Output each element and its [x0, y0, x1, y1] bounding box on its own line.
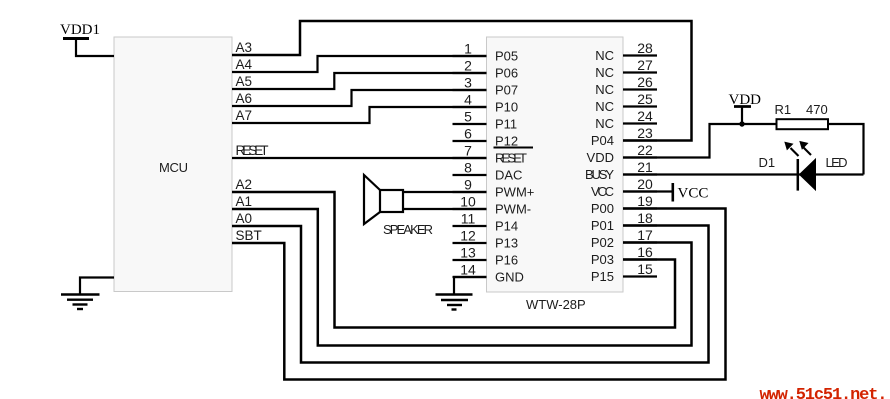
svg-text:NC: NC [595, 99, 614, 114]
svg-text:NC: NC [595, 82, 614, 97]
svg-text:P14: P14 [495, 219, 518, 234]
wire A2 to P03 (pin 16) [232, 192, 675, 328]
svg-text:A4: A4 [236, 57, 253, 72]
pin 1 P05 [453, 41, 519, 64]
pin 17 P02 [591, 227, 657, 250]
svg-text:A0: A0 [236, 211, 253, 226]
svg-text:6: 6 [464, 126, 472, 142]
pin 27 NC [595, 57, 657, 80]
pin 10 PWM- [453, 194, 532, 217]
wire A7 to P10 (pin 4) [232, 107, 487, 123]
wire VDD (pin 22) up to resistor rail [623, 124, 777, 158]
svg-text:23: 23 [637, 125, 653, 141]
pin 2 P06 [453, 58, 519, 81]
pin 22 VDD [587, 142, 657, 165]
pin 18 P01 [591, 210, 657, 233]
svg-text:P12: P12 [495, 134, 518, 149]
svg-text:BUSY: BUSY [585, 167, 614, 182]
power VDD1 [60, 22, 100, 57]
svg-text:14: 14 [460, 262, 476, 278]
svg-text:17: 17 [637, 227, 653, 243]
svg-text:P07: P07 [495, 83, 518, 98]
pin 16 P03 [591, 244, 657, 267]
svg-text:A3: A3 [236, 40, 253, 55]
ground GND2 [436, 295, 473, 310]
svg-text:A2: A2 [236, 177, 253, 192]
svg-text:A6: A6 [236, 91, 253, 106]
svg-text:NC: NC [595, 48, 614, 63]
pin 6 P12 [453, 126, 519, 149]
wire A4 to P05 (pin 1) [232, 56, 487, 72]
junction dot VDD rail [739, 121, 744, 126]
svg-text:7: 7 [464, 143, 472, 159]
svg-text:19: 19 [637, 193, 653, 209]
svg-text:12: 12 [460, 228, 476, 244]
svg-text:SBT: SBT [236, 228, 262, 243]
speaker LS1 [364, 175, 403, 224]
svg-text:P11: P11 [495, 117, 517, 132]
power VDD [729, 92, 762, 124]
wire A6 to P07 (pin 3) [232, 90, 487, 106]
svg-text:15: 15 [637, 261, 653, 277]
wire GND (pin 14) to ground [454, 277, 487, 295]
pin 13 P16 [453, 245, 519, 268]
pin 26 NC [595, 74, 657, 97]
pin 25 NC [595, 91, 657, 114]
svg-text:NC: NC [595, 116, 614, 131]
resistor R1 [777, 119, 829, 129]
wire SBT to P00 (pin 19) [232, 209, 726, 380]
svg-text:16: 16 [637, 244, 653, 260]
svg-text:P03: P03 [591, 252, 614, 267]
LED emission arrows [784, 141, 811, 156]
pin 24 NC [595, 108, 657, 131]
pin 3 P07 [453, 75, 519, 98]
wire RESET to pin 7 [232, 157, 487, 159]
svg-text:9: 9 [464, 177, 472, 193]
wire PWM+ (pin 9) to speaker [403, 191, 487, 193]
wire A1 to P02 (pin 17) [232, 209, 692, 346]
svg-text:LED: LED [826, 155, 848, 170]
pin 7 RESET [453, 143, 534, 166]
svg-text:VDD: VDD [587, 150, 614, 165]
svg-text:27: 27 [637, 57, 653, 73]
svg-text:P04: P04 [591, 133, 614, 148]
svg-text:P06: P06 [495, 66, 518, 81]
svg-text:10: 10 [460, 194, 476, 210]
svg-text:3: 3 [464, 75, 472, 91]
pin 15 P15 [591, 261, 657, 284]
svg-text:21: 21 [637, 159, 653, 175]
wire MCU to ground [80, 278, 114, 295]
svg-text:P13: P13 [495, 236, 518, 251]
svg-text:P00: P00 [591, 201, 614, 216]
IC U2 WTW-28P body [487, 37, 624, 292]
pin 9 PWM+ [453, 177, 535, 200]
svg-text:www.51c51.net.: www.51c51.net. [760, 386, 888, 399]
pin 28 NC [595, 40, 657, 63]
svg-text:PWM-: PWM- [495, 202, 531, 217]
svg-text:NC: NC [595, 65, 614, 80]
pin 5 P11 [453, 109, 518, 132]
svg-text:A7: A7 [236, 108, 253, 123]
wire VDD1 to MCU [75, 55, 114, 57]
svg-text:P01: P01 [591, 218, 614, 233]
svg-text:24: 24 [637, 108, 653, 124]
svg-text:8: 8 [464, 160, 472, 176]
wire A3 to P04 (pin 23) via top rail [232, 21, 692, 141]
svg-text:SPEAKER: SPEAKER [383, 222, 433, 237]
svg-text:VCC: VCC [591, 184, 614, 199]
pin 20 VCC [591, 176, 657, 199]
wire VCC (pin 20) [623, 190, 673, 192]
svg-text:A5: A5 [236, 74, 253, 89]
pin 19 P00 [591, 193, 657, 216]
svg-text:18: 18 [637, 210, 653, 226]
pin 11 P14 [453, 211, 519, 234]
svg-text:P10: P10 [495, 100, 518, 115]
svg-text:P15: P15 [591, 269, 614, 284]
svg-text:4: 4 [464, 92, 472, 108]
svg-text:470: 470 [806, 102, 828, 117]
wire PWM- (pin 10) to speaker [403, 208, 487, 210]
svg-text:26: 26 [637, 74, 653, 90]
svg-text:RESET: RESET [236, 143, 269, 158]
svg-text:5: 5 [464, 109, 472, 125]
svg-text:22: 22 [637, 142, 653, 158]
svg-text:P02: P02 [591, 235, 614, 250]
svg-text:1: 1 [464, 41, 472, 57]
svg-text:PWM+: PWM+ [495, 185, 534, 200]
svg-text:13: 13 [460, 245, 476, 261]
svg-text:11: 11 [461, 211, 476, 227]
svg-text:2: 2 [464, 58, 472, 74]
svg-text:28: 28 [637, 40, 653, 56]
pin 4 P10 [453, 92, 519, 115]
svg-text:VCC: VCC [678, 186, 709, 202]
svg-text:20: 20 [637, 176, 653, 192]
LED D1 [798, 159, 816, 191]
pin 21 BUSY [585, 159, 657, 182]
ground GND1 [61, 295, 100, 310]
wire BUSY (pin 21) to LED [623, 173, 864, 175]
svg-text:DAC: DAC [495, 168, 522, 183]
svg-text:25: 25 [637, 91, 653, 107]
pin 14 GND [453, 262, 524, 285]
svg-text:P05: P05 [495, 49, 518, 64]
svg-text:P16: P16 [495, 253, 518, 268]
svg-text:GND: GND [495, 270, 524, 285]
pin 23 P04 [591, 125, 657, 148]
pin 12 P13 [453, 228, 519, 251]
MCU U1 [114, 37, 232, 292]
svg-text:R1: R1 [775, 102, 792, 117]
svg-text:VDD1: VDD1 [60, 22, 100, 38]
svg-text:WTW-28P: WTW-28P [526, 297, 586, 312]
port VCC [673, 183, 709, 202]
svg-text:D1: D1 [759, 155, 776, 170]
wire A5 to P06 (pin 2) [232, 73, 487, 89]
wire A0 to P01 (pin 18) [232, 226, 709, 363]
svg-text:MCU: MCU [159, 160, 188, 175]
svg-text:A1: A1 [236, 194, 253, 209]
wire R1 to LED anode [828, 124, 864, 175]
pin 8 DAC [453, 160, 523, 183]
svg-text:RESET: RESET [495, 151, 527, 166]
